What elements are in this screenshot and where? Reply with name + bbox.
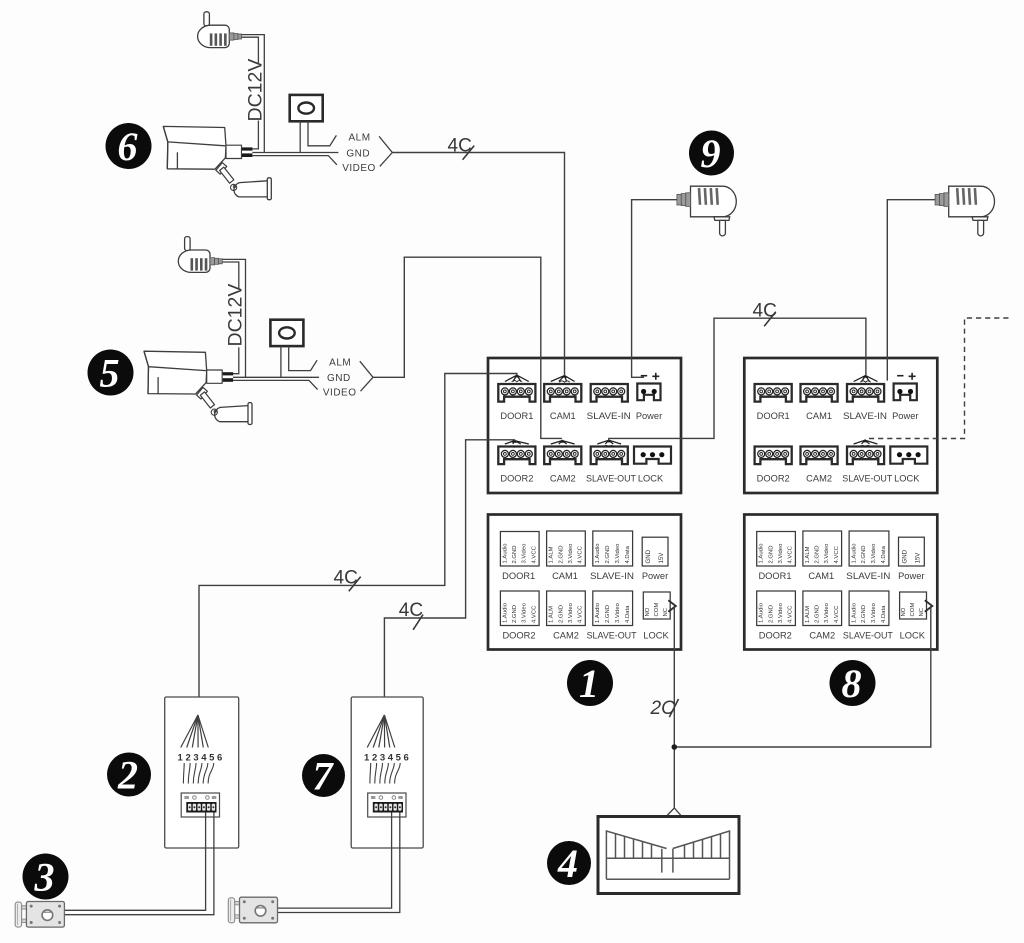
pin table CAM2 (M8) bbox=[803, 591, 842, 626]
svg-text:5: 5 bbox=[209, 753, 215, 764]
wire: DC12V pair from adapter to camera 5 bbox=[222, 259, 245, 377]
svg-text:DC12V: DC12V bbox=[225, 284, 247, 347]
power adapter PS-M8 (monitor 8 supply) bbox=[935, 186, 994, 236]
connector CAM1 (M8) bbox=[801, 384, 838, 402]
svg-text:LOCK: LOCK bbox=[643, 631, 669, 641]
label 4C (slave cable) bbox=[753, 301, 777, 327]
sensor S-5 (motion detector) bbox=[270, 320, 303, 346]
connector CAM2 (M1) bbox=[544, 447, 581, 465]
svg-text:Power: Power bbox=[642, 571, 668, 581]
svg-text:1.Audio: 1.Audio bbox=[595, 543, 601, 564]
label 4C (camera 6 cable) bbox=[448, 136, 475, 160]
power adapter PS-6 (DC12V wall plug for camera 6) bbox=[198, 12, 242, 48]
label minus/plus (M1 power) bbox=[641, 373, 660, 380]
svg-text:2.GND: 2.GND bbox=[605, 545, 611, 563]
wire: lock pair from station 2 down bbox=[64, 813, 214, 915]
gate operator unit (item 4) bbox=[598, 817, 739, 894]
svg-text:1.Audio: 1.Audio bbox=[759, 602, 765, 623]
badge 6 bbox=[106, 123, 152, 169]
svg-text:2.GND: 2.GND bbox=[815, 605, 821, 623]
svg-text:4.VCC: 4.VCC bbox=[578, 605, 584, 623]
svg-text:6: 6 bbox=[118, 124, 138, 169]
svg-text:4: 4 bbox=[201, 753, 207, 764]
svg-text:4C: 4C bbox=[753, 301, 777, 322]
monitor M1: connector panel box bbox=[488, 358, 681, 493]
svg-text:3.Video: 3.Video bbox=[824, 543, 830, 564]
camera 5 (CCTV bullet camera) bbox=[144, 351, 252, 424]
wire: dashed continuation from M8 SLAVE-OUT bbox=[869, 318, 1011, 439]
door station D7: outer panel bbox=[351, 697, 423, 848]
connector SLAVE-OUT (M8) bbox=[847, 447, 884, 465]
wire: M8 LOCK down and across to junction bbox=[677, 606, 931, 747]
svg-text:15V: 15V bbox=[914, 552, 921, 564]
svg-text:4.Data: 4.Data bbox=[625, 545, 631, 563]
svg-text:4.VCC: 4.VCC bbox=[788, 545, 794, 563]
svg-text:3.Video: 3.Video bbox=[522, 543, 528, 564]
wire: lock pair from station 7 down bbox=[277, 813, 400, 913]
svg-text:3.Video: 3.Video bbox=[778, 602, 784, 623]
wire: adapter to M8 Power bbox=[887, 200, 935, 381]
svg-text:3.Video: 3.Video bbox=[615, 602, 621, 623]
badge 7 bbox=[302, 754, 345, 799]
svg-text:4.Data: 4.Data bbox=[625, 605, 631, 623]
pin table LOCK (M8) bbox=[900, 592, 927, 619]
svg-text:3.Video: 3.Video bbox=[871, 543, 877, 564]
svg-text:1: 1 bbox=[364, 753, 370, 764]
svg-text:CAM2: CAM2 bbox=[806, 474, 832, 484]
svg-text:15V: 15V bbox=[658, 552, 665, 564]
electric lock L3a: strike plate bbox=[15, 902, 21, 927]
electric lock L3b: lock body bbox=[235, 897, 278, 923]
svg-text:SLAVE-OUT: SLAVE-OUT bbox=[843, 631, 893, 641]
door station D2: outer panel bbox=[165, 697, 239, 848]
monitor M8: connector panel box bbox=[744, 358, 937, 493]
wire: sensor 6 leads (to GND and ALM) bbox=[300, 121, 336, 152]
svg-text:4.VCC: 4.VCC bbox=[834, 545, 840, 563]
connector DOOR1 (M1) bbox=[498, 384, 535, 402]
label minus/plus (M8 power) bbox=[897, 373, 916, 380]
svg-text:8: 8 bbox=[842, 661, 862, 706]
svg-text:2.GND: 2.GND bbox=[558, 545, 564, 563]
badge 9 bbox=[689, 131, 734, 177]
svg-text:2.GND: 2.GND bbox=[861, 605, 867, 623]
svg-text:ALM: ALM bbox=[329, 357, 351, 368]
electric lock L3a: lock body bbox=[22, 902, 65, 928]
svg-text:CAM1: CAM1 bbox=[806, 411, 832, 421]
svg-text:6: 6 bbox=[217, 753, 222, 764]
label 4C (door2 cable) bbox=[399, 600, 423, 630]
svg-text:3.Video: 3.Video bbox=[522, 602, 528, 623]
svg-text:SLAVE-OUT: SLAVE-OUT bbox=[586, 474, 636, 484]
pin table SLAVE-OUT (M8) bbox=[849, 591, 889, 626]
connector DOOR2 (M8) bbox=[755, 447, 792, 465]
pin table CAM1 (M1) bbox=[547, 531, 586, 566]
pin table DOOR2 (M1) bbox=[500, 591, 539, 626]
fan: SLAVE-OUT wire bundle (M8) bbox=[854, 439, 878, 447]
wire: 4C cable M1 DOOR1 to door station 2 bbox=[199, 374, 517, 716]
camera 6 (CCTV bullet camera) bbox=[163, 126, 271, 199]
connector Power (M8) bbox=[894, 384, 917, 401]
connector SLAVE-IN (M1) bbox=[591, 384, 628, 402]
svg-text:2.GND: 2.GND bbox=[768, 605, 774, 623]
svg-text:SLAVE-IN: SLAVE-IN bbox=[846, 571, 890, 581]
svg-text:2: 2 bbox=[117, 753, 138, 798]
door station D2: terminal block bbox=[181, 793, 219, 817]
wire: M1 LOCK down to junction bbox=[673, 606, 675, 808]
svg-text:LOCK: LOCK bbox=[900, 631, 926, 641]
svg-text:1.ALM: 1.ALM bbox=[805, 546, 811, 563]
label 4C (door1 cable) bbox=[334, 568, 361, 592]
wire arrow: M8 LOCK pin box tap bbox=[925, 600, 933, 611]
svg-text:4.Data: 4.Data bbox=[881, 545, 887, 563]
fan: DOOR1 wire bundle (M1) bbox=[505, 374, 529, 382]
connector SLAVE-IN (M8) bbox=[847, 384, 884, 402]
svg-text:2.GND: 2.GND bbox=[512, 605, 518, 623]
power adapter PS-5 (DC12V wall plug for camera 5) bbox=[178, 237, 222, 273]
svg-text:1.Audio: 1.Audio bbox=[502, 602, 508, 623]
svg-text:CAM2: CAM2 bbox=[550, 474, 576, 484]
svg-text:DOOR2: DOOR2 bbox=[502, 631, 535, 641]
svg-text:3: 3 bbox=[193, 753, 198, 764]
svg-text:DOOR1: DOOR1 bbox=[500, 411, 533, 421]
svg-text:1.Audio: 1.Audio bbox=[851, 543, 857, 564]
fan: SLAVE-OUT wire bundle (M1) bbox=[597, 439, 621, 447]
label 2C (lock cable) bbox=[650, 698, 679, 719]
svg-text:3.Video: 3.Video bbox=[568, 602, 574, 623]
svg-text:9: 9 bbox=[701, 131, 721, 176]
svg-text:4: 4 bbox=[388, 753, 394, 764]
svg-text:DOOR1: DOOR1 bbox=[758, 571, 791, 581]
svg-text:4: 4 bbox=[557, 841, 578, 886]
wire: 4C cable camera 5 to monitor 1 CAM2 bbox=[373, 257, 562, 438]
fan: SLAVE-IN wire bundle (M8) bbox=[854, 374, 878, 382]
fan: CAM1 wire bundle (M1) bbox=[551, 374, 575, 382]
wire: 4C cable camera 6 to monitor 1 CAM1 bbox=[392, 153, 564, 377]
svg-text:1.ALM: 1.ALM bbox=[549, 546, 555, 563]
badge 1 bbox=[567, 660, 613, 706]
svg-text:2.GND: 2.GND bbox=[558, 605, 564, 623]
connector CAM1 (M1) bbox=[544, 384, 581, 402]
svg-text:4.VCC: 4.VCC bbox=[834, 605, 840, 623]
svg-text:1.ALM: 1.ALM bbox=[805, 606, 811, 623]
pin table DOOR2 (M8) bbox=[757, 591, 796, 626]
svg-text:LOCK: LOCK bbox=[638, 474, 664, 484]
svg-text:ALM: ALM bbox=[348, 133, 370, 144]
svg-text:2: 2 bbox=[372, 753, 377, 764]
svg-text:Power: Power bbox=[892, 411, 918, 421]
svg-text:SLAVE-OUT: SLAVE-OUT bbox=[587, 631, 637, 641]
svg-text:DOOR2: DOOR2 bbox=[500, 474, 533, 484]
svg-text:3: 3 bbox=[34, 855, 55, 900]
connector DOOR2 (M1) bbox=[498, 447, 535, 465]
svg-text:SLAVE-OUT: SLAVE-OUT bbox=[842, 474, 892, 484]
svg-text:1.Audio: 1.Audio bbox=[851, 602, 857, 623]
pin table SLAVE-OUT (M1) bbox=[593, 591, 633, 626]
connector LOCK (M1) bbox=[634, 447, 671, 464]
svg-text:3.Video: 3.Video bbox=[568, 543, 574, 564]
svg-text:1.Audio: 1.Audio bbox=[595, 602, 601, 623]
svg-text:NO: NO bbox=[901, 607, 907, 616]
svg-text:CAM2: CAM2 bbox=[809, 631, 835, 641]
door station D7: terminal block bbox=[368, 793, 406, 817]
svg-text:GND: GND bbox=[327, 373, 351, 384]
pin table DOOR1 (M8) bbox=[757, 532, 796, 567]
door station D7: wire curves to terminal bbox=[370, 763, 400, 784]
svg-text:4.VCC: 4.VCC bbox=[531, 545, 537, 563]
svg-text:NO: NO bbox=[645, 607, 651, 616]
svg-text:SLAVE-IN: SLAVE-IN bbox=[590, 571, 634, 581]
wire: adapter 9 to M1 Power bbox=[632, 200, 677, 378]
badge 4 bbox=[547, 841, 591, 886]
power adapter PS-9 (monitor 1 supply) bbox=[677, 186, 736, 236]
pin table DOOR1 (M1) bbox=[500, 532, 539, 567]
svg-text:SLAVE-IN: SLAVE-IN bbox=[587, 411, 631, 421]
svg-text:DC12V: DC12V bbox=[244, 59, 266, 122]
svg-text:DOOR2: DOOR2 bbox=[757, 474, 790, 484]
svg-text:SLAVE-IN: SLAVE-IN bbox=[843, 411, 887, 421]
pin table CAM2 (M1) bbox=[547, 591, 586, 626]
pin table SLAVE-IN (M8) bbox=[849, 531, 889, 566]
svg-text:4C: 4C bbox=[399, 600, 423, 621]
svg-text:DOOR2: DOOR2 bbox=[759, 631, 792, 641]
svg-text:1.ALM: 1.ALM bbox=[549, 606, 555, 623]
svg-text:3: 3 bbox=[380, 753, 385, 764]
wire: 4C cable M1 DOOR2 to door station 7 bbox=[384, 440, 514, 715]
fan: CAM2 wire bundle (M1) bbox=[551, 439, 575, 447]
svg-text:VIDEO: VIDEO bbox=[323, 388, 357, 399]
svg-text:1.Audio: 1.Audio bbox=[502, 543, 508, 564]
svg-text:VIDEO: VIDEO bbox=[342, 163, 376, 174]
svg-text:DOOR1: DOOR1 bbox=[757, 411, 790, 421]
door station D2: terminal numbers 123456 bbox=[178, 753, 223, 764]
svg-text:GND: GND bbox=[645, 549, 652, 563]
fan: DOOR2 wire bundle (M1) bbox=[505, 439, 529, 447]
svg-text:2.GND: 2.GND bbox=[512, 545, 518, 563]
door station D2: wire splice fan bbox=[181, 715, 209, 748]
pin table Power (M1) bbox=[642, 537, 668, 566]
door station D7: terminal numbers 123456 bbox=[364, 753, 409, 764]
svg-text:GND: GND bbox=[346, 148, 370, 159]
badge 2 bbox=[107, 753, 151, 798]
svg-text:3.Video: 3.Video bbox=[824, 602, 830, 623]
connector Power (M1) bbox=[637, 384, 660, 401]
svg-text:COM: COM bbox=[654, 603, 660, 617]
svg-text:7: 7 bbox=[313, 754, 335, 799]
wire: DC12V pair from adapter to camera 6 bbox=[242, 35, 265, 153]
svg-text:COM: COM bbox=[910, 603, 916, 617]
electric lock L3b: strike plate bbox=[228, 898, 234, 923]
svg-text:1: 1 bbox=[579, 661, 599, 706]
svg-text:GND: GND bbox=[902, 549, 909, 563]
junction node (lock wires) bbox=[672, 744, 678, 750]
door station D2: wire curves to terminal bbox=[183, 763, 213, 784]
badge 8 bbox=[830, 660, 876, 706]
svg-text:2.GND: 2.GND bbox=[768, 545, 774, 563]
pin table LOCK (M1) bbox=[643, 592, 670, 619]
pin table Power (M8) bbox=[899, 537, 925, 566]
svg-text:4.VCC: 4.VCC bbox=[531, 605, 537, 623]
badge 5 bbox=[88, 350, 134, 396]
wire: junction down to gate unit with split bbox=[667, 808, 682, 816]
svg-text:4.Data: 4.Data bbox=[881, 605, 887, 623]
monitor M1: pin detail box bbox=[488, 515, 681, 650]
connector LOCK (M8) bbox=[890, 447, 927, 464]
svg-text:CAM1: CAM1 bbox=[550, 411, 576, 421]
svg-text:5: 5 bbox=[100, 351, 120, 396]
svg-text:5: 5 bbox=[396, 753, 402, 764]
connector CAM2 (M8) bbox=[801, 447, 838, 465]
svg-text:3.Video: 3.Video bbox=[871, 602, 877, 623]
badge 3 bbox=[23, 854, 69, 900]
wire: camera 6 video cable breakout bbox=[252, 136, 392, 166]
connector SLAVE-OUT (M1) bbox=[591, 447, 628, 465]
sensor S-6 (motion detector) bbox=[290, 95, 323, 121]
svg-text:2.GND: 2.GND bbox=[605, 605, 611, 623]
door station D7: wire splice fan bbox=[367, 715, 395, 748]
svg-text:3.Video: 3.Video bbox=[778, 543, 784, 564]
svg-text:CAM2: CAM2 bbox=[553, 631, 579, 641]
pin table SLAVE-IN (M1) bbox=[593, 531, 633, 566]
svg-text:4.VCC: 4.VCC bbox=[788, 605, 794, 623]
svg-text:CAM1: CAM1 bbox=[808, 571, 834, 581]
svg-text:NC: NC bbox=[919, 607, 925, 616]
wire: sensor 5 leads (to GND and ALM) bbox=[281, 346, 317, 377]
wire: 4C cable M1 SLAVE-OUT to M8 SLAVE-IN bbox=[609, 318, 866, 440]
connector DOOR1 (M8) bbox=[755, 384, 792, 402]
svg-text:1.Audio: 1.Audio bbox=[759, 543, 765, 564]
svg-text:3.Video: 3.Video bbox=[615, 543, 621, 564]
svg-text:DOOR1: DOOR1 bbox=[502, 571, 535, 581]
svg-text:6: 6 bbox=[404, 753, 409, 764]
svg-text:2.GND: 2.GND bbox=[815, 545, 821, 563]
svg-text:Power: Power bbox=[636, 411, 662, 421]
wire arrow: M1 LOCK pin box tap bbox=[668, 600, 676, 611]
pin table CAM1 (M8) bbox=[803, 531, 842, 566]
svg-text:2: 2 bbox=[185, 753, 190, 764]
wire: camera 5 video cable breakout bbox=[233, 361, 373, 391]
svg-text:1: 1 bbox=[178, 753, 184, 764]
svg-text:NC: NC bbox=[663, 607, 669, 616]
svg-text:Power: Power bbox=[898, 571, 924, 581]
svg-text:LOCK: LOCK bbox=[894, 474, 920, 484]
monitor M8: pin detail box bbox=[744, 515, 937, 650]
svg-text:2C: 2C bbox=[650, 698, 676, 719]
svg-text:CAM1: CAM1 bbox=[552, 571, 578, 581]
svg-text:4.VCC: 4.VCC bbox=[578, 545, 584, 563]
svg-text:2.GND: 2.GND bbox=[861, 545, 867, 563]
